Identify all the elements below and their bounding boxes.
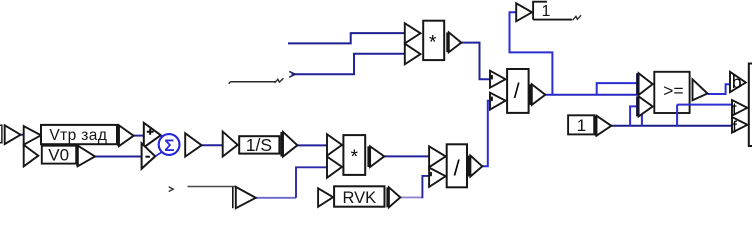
wire constant 1 output long: [611, 125, 732, 127]
svg-text:V0: V0: [48, 146, 69, 165]
svg-text:*: *: [351, 147, 359, 168]
gain triangle T4: [78, 146, 95, 167]
comparator input triangle 2: [639, 96, 653, 116]
wire comparator output: [708, 84, 731, 94]
multiplier mid output bar: [367, 146, 370, 167]
wire branch to comparator top input: [597, 83, 638, 95]
multiplier mid output triangle: [370, 146, 384, 167]
block 1/S integrator: [239, 136, 279, 153]
constant 1 right output triangle: [597, 116, 612, 136]
divider top output bar: [529, 84, 532, 105]
integrator output triangle: [283, 132, 297, 157]
divider top box: [507, 69, 528, 113]
svg-text:/: /: [514, 80, 520, 103]
wire RVK output horizontal: [400, 196, 422, 198]
divider top input triangle 2: [490, 93, 506, 110]
RVK output triangle: [389, 187, 400, 207]
arrow mark input B: [289, 71, 295, 77]
block RVK: [334, 186, 384, 206]
ghost source output triangle: [232, 187, 234, 208]
svg-text:*: *: [429, 33, 437, 54]
wire minus input: [95, 156, 142, 158]
divider bottom input triangle 1: [429, 146, 446, 167]
svg-text:Vтр зад: Vтр зад: [49, 127, 107, 144]
wire t input horizontal: [677, 104, 732, 106]
multiplier mid box: [343, 135, 365, 175]
comparator input triangle 1: [639, 73, 653, 95]
gain triangle T6 sum output: [185, 133, 201, 156]
wire integrator output: [297, 144, 327, 146]
wire multiplier top output: [461, 43, 490, 80]
gain triangle T2a: [24, 126, 41, 145]
svg-text:>=: >=: [663, 81, 683, 101]
gain triangle T1: [5, 125, 21, 144]
switch block body at edge: [749, 64, 752, 147]
divider bottom output bar: [468, 156, 471, 177]
constant 1 top input triangle: [516, 3, 532, 21]
ghost box at left edge: [0, 125, 2, 143]
switch input triangle f: [732, 117, 747, 133]
gain triangle T3: [119, 125, 134, 146]
RVK input triangle: [318, 188, 333, 207]
plus input triangle: [144, 123, 161, 148]
svg-text:1: 1: [577, 116, 586, 135]
svg-text:Σ: Σ: [164, 136, 174, 155]
wire divider top output: [545, 94, 637, 96]
comparator output triangle: [693, 79, 708, 100]
wire branch riser x641: [641, 106, 643, 125]
svg-text:b: b: [732, 72, 742, 92]
wire multiplier mid output: [384, 155, 429, 157]
wire plus input: [134, 135, 144, 137]
wire divider bottom output riser: [482, 101, 490, 167]
wire input B: [292, 54, 405, 75]
svg-text:t: t: [732, 101, 737, 119]
svg-text:f: f: [732, 117, 737, 136]
ghost box source: [188, 186, 237, 188]
wire ghost source riser: [296, 167, 327, 198]
multiplier top output bar: [446, 32, 449, 52]
arrow mark ghost input: [169, 187, 174, 192]
wire branch to top constant 1: [510, 12, 553, 94]
constant 1 top box partial: [533, 2, 547, 20]
block V0: [42, 146, 76, 164]
constant 1 right output bar: [595, 116, 597, 136]
integrator output bar: [280, 132, 283, 157]
switch input triangle b: [730, 72, 746, 92]
svg-text:/: /: [454, 156, 461, 181]
dangling black line: [229, 82, 276, 84]
divider bottom output triangle: [470, 156, 482, 177]
divider top input triangle 1: [490, 71, 506, 88]
sum junction sigma: [155, 135, 162, 156]
wire branch riser x630: [630, 106, 642, 126]
wire tiny link: [21, 134, 24, 136]
multiplier top input triangle 1: [405, 23, 421, 43]
multiplier mid input triangle 1: [327, 134, 342, 156]
wire sum output: [202, 144, 223, 146]
RVK output bar: [386, 187, 389, 207]
svg-text:1: 1: [541, 3, 550, 20]
multiplier top input triangle 2: [405, 44, 421, 65]
multiplier top box: [423, 21, 444, 60]
wire RVK output riser: [422, 176, 429, 198]
constant 1 right box: [568, 115, 594, 134]
svg-text:RVK: RVK: [342, 189, 376, 207]
divider top output triangle: [532, 84, 546, 105]
multiplier top output triangle: [449, 32, 462, 52]
divider bottom box: [447, 144, 467, 187]
gain triangle T2b: [24, 145, 39, 167]
wire ghost source horizontal: [256, 197, 296, 199]
wire input A: [288, 33, 405, 43]
squiggle break mark right: [573, 15, 582, 20]
gain triangle T7: [223, 132, 238, 157]
wire riser x677 over box: [676, 105, 678, 127]
multiplier mid input triangle 2: [327, 157, 342, 178]
squiggle break mark left: [275, 78, 284, 83]
minus input triangle: [142, 143, 156, 168]
divider bottom input triangle 2: [429, 168, 446, 187]
block Vtr zad: [41, 125, 117, 144]
svg-text:1/S: 1/S: [246, 135, 272, 155]
switch input triangle t: [732, 100, 747, 116]
comparator box: [654, 72, 689, 113]
